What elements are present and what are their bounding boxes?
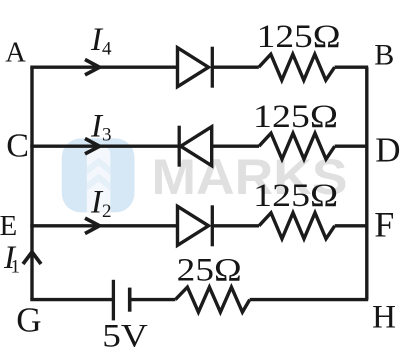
resistor R3 125ohm <box>259 213 335 239</box>
svg-text:3: 3 <box>102 124 112 145</box>
current arrow I2 <box>85 218 100 233</box>
battery B1 plate long <box>112 280 115 321</box>
battery B1 plate short <box>128 288 132 312</box>
wire right rail B-D-F-H <box>365 67 368 299</box>
watermark logo column <box>87 147 111 213</box>
wire diode D1 to resistor R1 <box>212 65 258 68</box>
wire left rail A-C-E-G <box>30 67 33 299</box>
svg-text:1: 1 <box>11 257 21 278</box>
wire A to diode D1 <box>30 65 177 68</box>
svg-text:G: G <box>16 301 41 340</box>
wire diode D3 to resistor R3 <box>212 224 259 227</box>
svg-text:A: A <box>5 37 26 68</box>
svg-text:C: C <box>6 128 29 165</box>
svg-text:E: E <box>0 210 17 242</box>
current arrow I1 <box>23 252 41 264</box>
watermark logo chevron 2 <box>87 174 111 192</box>
wire diode D2 to resistor R2 <box>212 144 259 147</box>
diode D1 <box>178 47 213 88</box>
watermark logo box <box>62 138 135 212</box>
wire E to diode D3 <box>30 224 177 227</box>
svg-text:F: F <box>374 205 394 245</box>
current arrow I4 <box>85 60 100 75</box>
svg-text:125Ω: 125Ω <box>257 19 341 55</box>
svg-text:5V: 5V <box>102 318 148 354</box>
wire battery to resistor R4 <box>130 298 176 301</box>
svg-text:25Ω: 25Ω <box>177 252 242 288</box>
wire G to battery <box>30 298 113 301</box>
wire resistor R4 to H <box>250 298 369 301</box>
svg-text:D: D <box>375 130 400 169</box>
svg-text:125Ω: 125Ω <box>253 99 338 135</box>
svg-text:125Ω: 125Ω <box>253 178 338 214</box>
svg-text:2: 2 <box>102 201 112 222</box>
svg-text:B: B <box>374 39 394 72</box>
wire resistor R2 to D <box>335 144 369 147</box>
watermark logo chevron 1 <box>87 158 111 176</box>
diode D3 <box>178 205 213 246</box>
diode D2 <box>179 126 212 167</box>
current arrow I3 <box>85 139 100 154</box>
resistor R1 125ohm <box>259 54 335 80</box>
resistor R4 25ohm <box>175 287 249 312</box>
resistor R2 125ohm <box>259 133 335 159</box>
wire C to diode D2 <box>30 144 179 147</box>
svg-text:H: H <box>372 299 396 335</box>
wire resistor R1 to B <box>335 65 369 68</box>
svg-text:4: 4 <box>102 38 112 59</box>
wire resistor R3 to F <box>335 224 369 227</box>
